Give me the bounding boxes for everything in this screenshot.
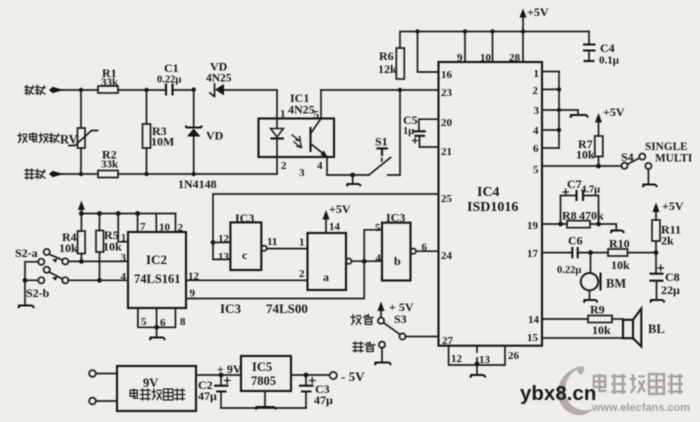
svg-text:- 5V: - 5V (341, 369, 365, 384)
junction RV bottom (79, 172, 83, 176)
capacitor C3 (299, 375, 333, 408)
svg-text:0.22μ: 0.22μ (557, 265, 581, 276)
capacitor C8 (650, 253, 681, 303)
capacitor C7 (561, 177, 601, 224)
svg-text:C8: C8 (665, 270, 680, 284)
capacitor C4 (583, 32, 620, 67)
svg-text:1: 1 (534, 68, 540, 80)
wire pin19 stub (542, 223, 567, 225)
wire IC2 pin12 to gate a pin2 (186, 279, 308, 281)
microphone BM (581, 253, 627, 303)
svg-text:5: 5 (314, 109, 320, 121)
watermark logo swirl (558, 366, 593, 415)
wire IC5 out (291, 374, 329, 376)
svg-text:R8: R8 (562, 209, 577, 223)
wire pin17 stub (542, 252, 572, 254)
svg-text:74LS00: 74LS00 (266, 301, 308, 316)
svg-text:1μ: 1μ (403, 126, 414, 137)
wire pin6 stub (542, 147, 559, 149)
ground below S4 (643, 169, 658, 187)
svg-text:21: 21 (441, 146, 452, 158)
junction rail pin7 (135, 211, 140, 216)
wire input top (96, 373, 117, 375)
wire pin1 branch (118, 214, 128, 242)
junction R7 bottom (596, 164, 601, 169)
junction C2 (219, 373, 224, 378)
svg-text:4.7μ: 4.7μ (581, 185, 600, 196)
svg-text:12: 12 (451, 353, 463, 365)
svg-text:4: 4 (121, 271, 127, 283)
svg-text:0.22μ: 0.22μ (157, 75, 181, 86)
svg-text:10k: 10k (59, 241, 78, 255)
svg-text:470k: 470k (579, 209, 604, 223)
wire pin25 long (213, 194, 439, 242)
svg-text:IC4: IC4 (477, 185, 500, 200)
wire ground rail (221, 407, 306, 409)
svg-text:12: 12 (218, 233, 230, 245)
svg-text:28: 28 (509, 52, 521, 64)
svg-text:SINGLE: SINGLE (645, 141, 688, 153)
wire pin5 to S4 (542, 157, 621, 167)
wire pin3 stub (542, 109, 559, 111)
svg-text:4N25: 4N25 (206, 73, 232, 85)
wire R10 to junction (628, 252, 657, 254)
junction rail R5 (97, 211, 102, 216)
resistor R3 (143, 90, 175, 174)
svg-text:22μ: 22μ (661, 283, 680, 297)
svg-text:4: 4 (317, 160, 323, 172)
ground S2 (18, 306, 34, 309)
svg-text:IC2: IC2 (146, 252, 167, 267)
junction S1 ground (350, 173, 355, 178)
svg-text:20: 20 (441, 117, 453, 129)
svg-text:C7: C7 (567, 177, 582, 191)
svg-text:MULTI: MULTI (655, 153, 693, 165)
svg-text:4: 4 (533, 125, 539, 137)
box IC5 7805 (241, 356, 291, 391)
watermark 电子发烧友 (594, 374, 683, 394)
svg-text:1: 1 (280, 108, 286, 120)
junction ground 12/13 (475, 362, 480, 367)
wire pin2 stub (542, 88, 559, 90)
svg-text:3: 3 (299, 167, 305, 179)
wire gate c out to gate a (267, 248, 308, 250)
svg-text:10k: 10k (576, 148, 595, 162)
svg-text:+5V: +5V (329, 202, 351, 216)
svg-text:S2-b: S2-b (26, 286, 50, 300)
pin 5 (314, 90, 322, 121)
svg-text:www.elecfans.com: www.elecfans.com (591, 402, 690, 414)
wire S1 right to x400 riser (388, 90, 400, 175)
resistor R2 (98, 148, 119, 178)
wire gate a out (352, 260, 383, 262)
svg-text:ybx8.cn: ybx8.cn (520, 382, 596, 405)
ground for bus (559, 110, 588, 118)
junction BM tap (588, 250, 593, 255)
wire IC2 +5V rail (81, 213, 175, 215)
svg-text:C5: C5 (403, 113, 418, 127)
switch S1 (369, 135, 391, 176)
wire pin16 branch (418, 32, 439, 73)
svg-text:C1: C1 (164, 61, 179, 75)
svg-text:33k: 33k (101, 77, 119, 89)
speaker BL (623, 309, 665, 347)
junction gate b in (362, 259, 367, 264)
junction R8 left (558, 222, 563, 227)
wire pin3 row (69, 260, 129, 262)
wire +5V rail (400, 32, 589, 49)
resistor R5 (96, 214, 122, 281)
svg-text:R10: R10 (609, 237, 630, 251)
wire pin10 stub (492, 32, 494, 63)
wire S2 common (25, 262, 38, 305)
svg-text:9V: 9V (143, 376, 158, 390)
svg-text:+5V: +5V (527, 5, 549, 19)
svg-text:33k: 33k (101, 159, 119, 171)
resistor R4 (59, 214, 85, 262)
svg-text:R6: R6 (379, 49, 394, 63)
wire pin1 stub (542, 71, 559, 73)
switch S4 (621, 150, 652, 169)
label 录音 (353, 342, 375, 352)
junction R4 pin3 (79, 259, 84, 264)
junction rail x465 (463, 29, 467, 33)
junction at RV top (79, 88, 83, 92)
terminal 录音 (375, 342, 392, 365)
svg-text:7805: 7805 (251, 374, 276, 388)
wire from pin4 to S1 (327, 174, 369, 176)
capacitor C1 (157, 61, 181, 96)
ground below S1 wire (347, 175, 362, 186)
junction ground 5/6 (154, 325, 159, 330)
svg-text:17: 17 (527, 248, 539, 260)
junction gate c inputs (211, 240, 216, 245)
junction bus pin2 (557, 87, 561, 91)
wire feedback to IC2 pin9 (186, 261, 364, 298)
junction C3 (304, 373, 309, 378)
svg-text:VD: VD (210, 60, 228, 74)
pin 4 (317, 157, 327, 175)
svg-text:R9: R9 (590, 303, 605, 317)
svg-text:7: 7 (140, 221, 146, 233)
wire pin28 stub (522, 32, 524, 63)
svg-text:26: 26 (508, 350, 520, 362)
svg-text:a: a (323, 270, 329, 284)
svg-text:10: 10 (480, 52, 492, 64)
wire pin 23 stub (400, 89, 439, 91)
svg-text:2: 2 (533, 85, 539, 97)
LED inside IC1 (271, 119, 285, 158)
svg-text:ISD1016: ISD1016 (467, 200, 518, 215)
junction S2 common (23, 278, 28, 283)
svg-text:10k: 10k (103, 240, 122, 254)
svg-text:12k: 12k (378, 62, 397, 76)
pins 5 6 8 sub-box (138, 308, 186, 329)
wire R8 to ground (590, 224, 616, 230)
svg-text:6: 6 (160, 317, 166, 329)
svg-text:6: 6 (533, 143, 539, 155)
svg-text:10k: 10k (611, 258, 630, 272)
svg-text:C6: C6 (568, 234, 583, 248)
svg-text:S4: S4 (621, 150, 634, 164)
svg-text:2: 2 (281, 160, 287, 172)
junction rail R4 (79, 211, 84, 216)
svg-text:24: 24 (441, 250, 453, 262)
wire pin10 stub (155, 214, 157, 233)
wire pin4 row (69, 279, 129, 281)
svg-text:9: 9 (457, 52, 463, 64)
power arrow IC2 rail (78, 201, 85, 214)
terminal input top (89, 370, 96, 377)
resistor R7 (576, 136, 603, 162)
svg-text:74LS161: 74LS161 (134, 272, 181, 286)
svg-text:10M: 10M (151, 135, 174, 149)
wire pin2 stub (175, 214, 177, 233)
svg-text:8: 8 (180, 316, 186, 328)
wire pin4 stub (542, 129, 559, 131)
label 放音 (351, 315, 374, 325)
svg-text:5: 5 (533, 164, 539, 176)
wire gate b pin5 (364, 230, 382, 261)
svg-text:2: 2 (178, 222, 184, 234)
terminal input bottom (89, 398, 96, 405)
capacitor C5 between pins 20/21 (403, 113, 439, 147)
capacitor C6 (557, 234, 583, 277)
resistor R11 (652, 220, 681, 253)
wire top line (green) (80, 89, 277, 91)
svg-text:14: 14 (528, 314, 540, 326)
pin 1 (277, 90, 286, 120)
terminal +5V out (330, 369, 365, 384)
op-amp IC1 4N25 box (259, 91, 335, 157)
wire gate b out to pin24 (416, 250, 439, 252)
svg-text:+5V: +5V (603, 105, 625, 119)
svg-text:2k: 2k (661, 234, 674, 248)
wire input bottom (96, 400, 117, 402)
pins 12 13 sub-box (449, 346, 520, 366)
junction at VD top (192, 87, 196, 91)
svg-text:IC3: IC3 (386, 211, 405, 225)
svg-text:10: 10 (159, 222, 171, 234)
resistor R6 (378, 48, 404, 79)
svg-text:4N25: 4N25 (288, 103, 315, 117)
svg-text:3: 3 (534, 105, 540, 117)
power +5V arrow S3 (378, 300, 414, 317)
junction R8 right (596, 222, 601, 227)
svg-text:13: 13 (479, 354, 491, 366)
node green-line arrow (49, 87, 80, 94)
wire pin7 stub (137, 214, 139, 233)
svg-text:b: b (394, 254, 401, 268)
svg-text:S2-a: S2-a (15, 246, 38, 260)
svg-text:2: 2 (299, 268, 305, 280)
junction VD bottom (192, 172, 196, 176)
svg-text:47μ: 47μ (314, 393, 333, 407)
junction R11/C8 (654, 250, 659, 255)
svg-text:IC3: IC3 (220, 301, 241, 316)
svg-text:VD: VD (206, 129, 224, 143)
label 电源适配器 (130, 389, 184, 400)
svg-text:14: 14 (329, 221, 341, 233)
diode VD 4N25 (series, horizontal) (206, 60, 232, 97)
resistor R10 (608, 237, 630, 273)
svg-text:RV: RV (60, 133, 78, 147)
power +5V arrow above R11 (653, 199, 684, 220)
light arrows (292, 135, 302, 148)
junction bus pin4 (557, 128, 561, 132)
nand gate IC3b (375, 211, 428, 281)
ground below IC2 (150, 327, 166, 340)
resistor R9 (588, 303, 612, 338)
wire bus vertical (558, 72, 560, 149)
wire pin15 to speaker (542, 337, 623, 339)
power +5V arrow above R7 (595, 105, 625, 136)
junction rail x492 (490, 29, 494, 33)
svg-text:19: 19 (527, 220, 539, 232)
svg-text:25: 25 (441, 193, 453, 205)
switch S2-b (26, 267, 68, 300)
ground R8 (611, 231, 625, 234)
junction bus pin3 (557, 108, 561, 112)
label 接电话线 (18, 133, 59, 143)
wire gate c input 13 (213, 242, 230, 259)
wire pin14 stub (542, 318, 588, 320)
svg-text:11: 11 (267, 236, 277, 248)
power +5V arrow top (520, 5, 549, 32)
box 9V adapter (117, 366, 196, 411)
svg-text:5: 5 (141, 316, 147, 328)
svg-text:S3: S3 (394, 312, 407, 326)
svg-text:1N4148: 1N4148 (178, 177, 217, 191)
svg-text:+ 9V: + 9V (217, 362, 242, 376)
nand gate IC3c (218, 211, 277, 270)
ground IC5 (256, 407, 277, 410)
wire gate c input 12 (213, 241, 230, 243)
svg-text:23: 23 (441, 87, 453, 99)
junction R3 bottom (144, 172, 148, 176)
svg-text:47μ: 47μ (198, 389, 217, 403)
svg-text:15: 15 (527, 332, 539, 344)
svg-text:5: 5 (375, 222, 381, 234)
wire pin9 stub (464, 32, 466, 63)
svg-text:4: 4 (376, 253, 382, 265)
svg-text:13: 13 (218, 251, 230, 263)
junction rail x417 (415, 29, 419, 33)
junction rail x523 (521, 29, 525, 33)
svg-text:c: c (242, 248, 248, 262)
op-amp U IC4 box (439, 62, 543, 346)
svg-text:C4: C4 (600, 41, 615, 55)
svg-text:16: 16 (441, 69, 453, 81)
label 绿线 (25, 86, 45, 95)
wire pin5 to R6 junction (321, 89, 400, 91)
wire bottom line (red) (81, 173, 277, 175)
wire C6 to R10 (578, 252, 608, 254)
svg-text:BM: BM (606, 277, 626, 291)
nand gate IC3a (299, 221, 351, 290)
op-amp U IC2 box (128, 232, 186, 308)
ground below 12/13 (470, 365, 486, 378)
wire IC5 ground stem (264, 391, 266, 406)
svg-text:1: 1 (299, 237, 305, 249)
junction R5 pin4 (97, 278, 102, 283)
node red-line arrow (49, 171, 81, 178)
svg-text:IC3: IC3 (235, 211, 254, 225)
wire R9 to speaker (612, 318, 623, 320)
capacitor C2 (198, 375, 230, 408)
svg-text:IC5: IC5 (252, 360, 272, 374)
switch S2-a (15, 246, 68, 265)
resistor R1 (98, 66, 119, 93)
junction R6/pin23 (398, 88, 402, 92)
diode VD 1N4148 (shunt, vertical) (186, 89, 224, 174)
transistor Q inside IC1 (311, 119, 328, 158)
varistor RV (60, 90, 98, 174)
svg-text:S1: S1 (375, 135, 388, 149)
switch S3 (378, 312, 407, 340)
junction rail pin1 (116, 211, 121, 216)
label 红线 (25, 169, 45, 179)
wire S3 to pin27 (406, 336, 439, 338)
svg-text:10k: 10k (592, 323, 611, 337)
svg-text:0.1μ: 0.1μ (599, 55, 620, 67)
wire adapter out (196, 374, 241, 376)
junction at R3 top (144, 88, 148, 92)
svg-text:1: 1 (121, 233, 126, 244)
svg-text:+5V: +5V (662, 199, 684, 213)
pin 2 (277, 157, 287, 174)
resistor R8 (562, 209, 604, 228)
power +5V arrow gate a (323, 202, 351, 233)
svg-text:BL: BL (648, 322, 665, 336)
